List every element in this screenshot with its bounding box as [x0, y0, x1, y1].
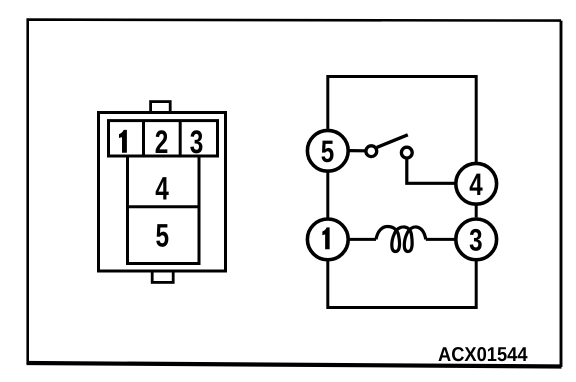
wire coil to terminal 3	[426, 238, 456, 241]
svg-text:4: 4	[469, 167, 483, 202]
figure code label ACX01544	[438, 344, 528, 366]
switch contact left (open circle)	[366, 146, 377, 157]
switch blade	[377, 135, 408, 148]
connector top tab	[151, 102, 171, 114]
divider between cavity 1 and 2	[142, 121, 145, 156]
relay coil	[376, 227, 426, 252]
wire switch contact to terminal 4	[407, 159, 455, 183]
svg-text:2: 2	[155, 124, 169, 160]
pin label 5	[156, 217, 170, 253]
wire terminal 5 to switch contact	[350, 149, 366, 152]
svg-text:3: 3	[469, 222, 482, 257]
svg-text:5: 5	[156, 217, 170, 253]
switch contact right (open circle)	[401, 147, 412, 158]
pin label 4	[155, 171, 169, 207]
pin label 2	[155, 124, 169, 160]
wire terminal 1 to coil	[350, 238, 376, 241]
wire bottom loop (terminal 1 to terminal 3 via bottom)	[328, 261, 476, 307]
divider between cavity 2 and 3	[179, 121, 182, 156]
connector bottom tab	[152, 271, 173, 283]
wire terminal 5 to terminal 1	[326, 173, 329, 218]
svg-text:4: 4	[155, 171, 169, 207]
svg-text:ACX01544: ACX01544	[438, 344, 528, 366]
pin cavity 4-5 box outline	[128, 156, 200, 264]
pin label 3	[190, 124, 204, 160]
wire top loop (terminal 5 to terminal 4 via top)	[328, 77, 476, 163]
terminal 1 (circled)	[307, 219, 348, 260]
svg-text:3: 3	[190, 124, 204, 160]
wire terminal 4 to terminal 3	[475, 206, 478, 218]
pin label 1	[119, 130, 127, 153]
terminal 3 (circled)	[456, 219, 497, 260]
svg-text:5: 5	[321, 134, 334, 169]
terminal 4 (circled)	[456, 163, 497, 204]
pin cavity row 1-2-3 outline	[109, 121, 218, 156]
divider between cavity 4 and 5	[128, 205, 200, 208]
terminal 5 (circled)	[307, 130, 348, 171]
connector housing outline	[99, 113, 226, 272]
